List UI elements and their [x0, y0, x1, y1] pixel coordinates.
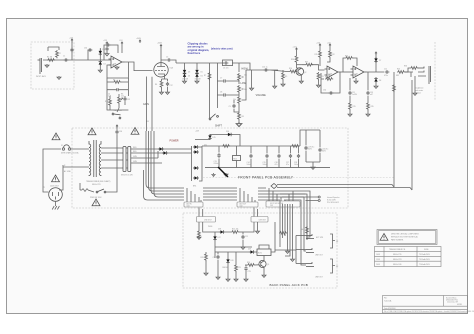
feedback loop U2A — [321, 72, 340, 95]
warning triangle ac — [52, 133, 60, 140]
svg-text:TRANSFORMER (SEE CHART): TRANSFORMER (SEE CHART) — [86, 180, 111, 183]
resistor R19 rail — [222, 145, 230, 148]
wire bus riser left4 — [154, 131, 184, 197]
svg-text:F1: F1 — [61, 145, 63, 147]
dashed chassis bottom right — [203, 177, 394, 179]
svg-text:D19: D19 — [248, 249, 251, 251]
bracket ext spk — [330, 234, 339, 248]
ground rail arrow — [224, 173, 228, 176]
resistor R20 rail — [291, 145, 299, 148]
ground AC — [52, 201, 59, 209]
ground jack sleeve — [45, 64, 49, 67]
wire B+ rail — [205, 145, 300, 147]
dashed enclosure front panel pcb — [72, 128, 348, 208]
capacitor C31 — [102, 47, 109, 56]
svg-text:R4: R4 — [155, 84, 157, 86]
svg-text:R14: R14 — [325, 76, 328, 78]
svg-text:File:: File: — [384, 298, 388, 300]
connector CN9 aux out — [251, 208, 268, 223]
wire headphone gnd — [414, 76, 416, 92]
jack line out 2 — [296, 262, 323, 279]
resistor R12 — [327, 47, 335, 62]
resistor R40 on riser — [279, 232, 287, 235]
title block — [383, 296, 474, 314]
capacitor C23 — [244, 265, 251, 281]
svg-text:TRANSFORMER P.N.: TRANSFORMER P.N. — [389, 248, 406, 251]
ground clip diodes 1 — [183, 80, 187, 83]
supply -15V mid — [119, 40, 123, 53]
svg-text:240V ONLY: 240V ONLY — [50, 186, 60, 188]
svg-text:FRONT PANEL PCB ASSEMBLY: FRONT PANEL PCB ASSEMBLY — [238, 175, 294, 179]
connector CN8 aux in — [197, 208, 216, 223]
svg-text:R35: R35 — [371, 106, 374, 108]
svg-text:10k: 10k — [301, 229, 304, 231]
svg-text:1N4148: 1N4148 — [222, 267, 228, 269]
svg-text:C36: C36 — [119, 131, 122, 133]
wire clip diode drop 1 — [184, 63, 186, 69]
wire aux rail — [195, 138, 210, 141]
wire bus riser left3 — [151, 131, 184, 194]
resistor R10 series — [287, 68, 297, 73]
label internal speaker — [327, 196, 340, 204]
svg-text:D7: D7 — [379, 60, 381, 62]
svg-text:BR1: BR1 — [193, 186, 196, 188]
capacitor C3 top — [104, 43, 118, 61]
svg-text:T200mA 250V: T200mA 250V — [419, 263, 431, 266]
switch SHIFT — [208, 113, 222, 127]
potentiometer LOW — [238, 85, 247, 96]
ground foot — [291, 258, 295, 261]
svg-text:7815: 7815 — [233, 158, 237, 160]
bracket line out — [330, 259, 339, 273]
resistor R18 on line — [393, 84, 396, 92]
svg-text:SHIFT: SHIFT — [215, 125, 222, 128]
ground cathode — [160, 91, 164, 94]
speaker connector diamond — [271, 184, 412, 191]
capacitor C18 — [294, 146, 300, 168]
diode D12 bridge — [193, 150, 199, 153]
wire headphone feed — [405, 72, 413, 77]
svg-text:CN1: CN1 — [270, 205, 273, 207]
ground cathode cap — [166, 91, 170, 94]
resistor R3 feedback — [107, 78, 128, 105]
capacitor C17 — [286, 146, 292, 168]
svg-text:+340V: +340V — [136, 38, 142, 40]
diode D6 — [195, 72, 202, 81]
diode D7 — [374, 54, 381, 72]
ground input — [57, 76, 61, 79]
ground under U2B — [354, 78, 358, 83]
potentiometer HIGH — [238, 73, 247, 84]
wire foot pins continue — [280, 201, 293, 214]
switch gain pull — [112, 108, 122, 119]
svg-text:C10 1u: C10 1u — [262, 67, 268, 69]
capacitor C32 — [123, 96, 130, 105]
capacitor C4 — [107, 88, 128, 97]
capacitor C15 — [263, 146, 269, 168]
svg-text:C23: C23 — [248, 271, 251, 273]
ground rail sym — [211, 173, 215, 176]
svg-text:45238: 45238 — [457, 304, 462, 306]
svg-text:R9: R9 — [285, 76, 287, 78]
op-amp U1A — [109, 56, 125, 68]
resistor R37 out — [302, 61, 325, 70]
wire AC neutral — [59, 165, 85, 190]
regulator VR1 — [233, 146, 241, 168]
wire bus riser left5 — [144, 170, 185, 200]
svg-text:fixed here: fixed here — [188, 51, 201, 55]
resistor R24 base — [245, 262, 259, 267]
svg-text:D6: D6 — [201, 76, 203, 78]
svg-text:D8: D8 — [379, 80, 381, 82]
ground aux out — [256, 230, 260, 233]
svg-text:1N4148: 1N4148 — [182, 79, 188, 81]
resistor R8 below volume — [238, 112, 244, 122]
svg-text:C9: C9 — [229, 106, 231, 108]
wire B+ branch caps — [300, 130, 320, 166]
ground opamp — [115, 66, 119, 69]
wire heater 2 — [151, 77, 153, 131]
input jack J1 — [36, 58, 47, 78]
svg-text:100u: 100u — [263, 164, 267, 166]
svg-text:C3: C3 — [105, 43, 107, 45]
svg-text:Q2: Q2 — [304, 72, 306, 74]
wire secondary taps — [101, 148, 123, 168]
svg-text:R21 10k: R21 10k — [232, 229, 238, 231]
svg-text:R22: R22 — [201, 257, 204, 259]
wire rectifier feed — [131, 149, 192, 163]
resistor R4 cathode — [155, 77, 173, 91]
capacitor C20 — [318, 148, 328, 153]
resistor R42 riser — [301, 226, 309, 234]
svg-text:+340V: +340V — [157, 43, 163, 45]
svg-text:SB00-0740: SB00-0740 — [393, 264, 402, 266]
resistor R17 headphone — [405, 67, 418, 72]
wire opamp2 out — [367, 71, 385, 73]
capacitor C11 — [348, 78, 357, 102]
svg-text:470u: 470u — [384, 75, 388, 77]
resistor R21 — [231, 229, 243, 234]
label clip pair 1 — [182, 79, 188, 81]
svg-text:CN9 5917: CN9 5917 — [259, 220, 267, 222]
relay K1 — [257, 222, 275, 256]
svg-text:R36: R36 — [291, 59, 294, 61]
wire stage link — [341, 71, 354, 73]
notes box critical component — [377, 230, 437, 245]
svg-text:Date:6/16/2000: Date:6/16/2000 — [384, 307, 396, 310]
svg-text:T315mA: T315mA — [72, 152, 79, 155]
svg-text:C8: C8 — [220, 92, 222, 94]
svg-text:Q1: Q1 — [267, 264, 269, 266]
svg-text:8R2: 8R2 — [396, 75, 399, 77]
resistor R16 — [397, 69, 405, 74]
wire aux out drop — [243, 222, 258, 232]
transformer T1 secondary — [86, 141, 111, 186]
resistor R7 left — [204, 72, 211, 80]
supply +15V — [69, 38, 74, 43]
svg-text:C32: C32 — [127, 99, 130, 101]
svg-text:C31: C31 — [102, 49, 105, 51]
capacitor C7 left — [217, 78, 239, 83]
svg-text:100n: 100n — [294, 164, 298, 166]
wire foot riser link — [285, 244, 293, 258]
diode D17 vertical — [208, 226, 221, 258]
svg-text:C37: C37 — [170, 85, 173, 87]
resistor R13 feedback — [343, 55, 357, 72]
resistor R11 — [315, 47, 322, 66]
svg-text:n47: n47 — [370, 94, 373, 96]
svg-text:R2: R2 — [59, 53, 61, 55]
svg-text:C5: C5 — [166, 57, 168, 59]
wire bus to line jacks 3 — [282, 197, 306, 251]
capacitor C9 — [229, 100, 240, 112]
svg-text:C1: C1 — [63, 56, 65, 58]
svg-text:GAIN: GAIN — [143, 103, 149, 106]
svg-text:SB00-0715: SB00-0715 — [393, 254, 402, 256]
supply -15V opamp2 — [327, 43, 331, 48]
svg-text:D3: D3 — [188, 72, 190, 74]
svg-text:PART NUMBER.: PART NUMBER. — [391, 239, 404, 242]
svg-text:SB00-0723: SB00-0723 — [393, 259, 402, 261]
svg-text:R15: R15 — [353, 106, 356, 108]
diode D18 horizontal — [210, 229, 231, 234]
capacitor C1 — [63, 56, 68, 62]
svg-text:1N4148: 1N4148 — [195, 79, 201, 81]
ground clip diodes 2 — [195, 80, 199, 83]
capacitor C5 — [166, 57, 171, 62]
svg-text:D18: D18 — [218, 229, 221, 231]
resistor R30 — [105, 96, 128, 110]
svg-text:R12: R12 — [332, 54, 335, 56]
svg-text:INPUT JACK: INPUT JACK — [36, 75, 47, 78]
diode D16 — [226, 131, 233, 136]
svg-text:T315mA 250V: T315mA 250V — [419, 258, 431, 261]
ground aux in — [197, 236, 201, 239]
wire clip diode drop 2 — [196, 63, 198, 69]
connector CN4 — [121, 147, 133, 177]
svg-text:R23: R23 — [238, 267, 241, 269]
resistor R36 collector — [291, 55, 298, 68]
svg-text:R37: R37 — [305, 61, 308, 63]
svg-text:R8: R8 — [242, 116, 244, 118]
resistor R15 — [348, 102, 356, 116]
wire node A riser — [71, 42, 73, 60]
svg-text:P.N. SP00-0012: P.N. SP00-0012 — [327, 202, 339, 204]
svg-text:SB00-0723: SB00-0723 — [92, 184, 101, 186]
ground clip — [98, 69, 102, 72]
svg-text:Tube 12A: Tube 12A — [384, 300, 392, 303]
connector CN1 FOOT SW — [266, 188, 300, 207]
wire mid rail back — [215, 247, 252, 252]
svg-text:D5: D5 — [201, 72, 203, 74]
capacitor C35 — [366, 72, 373, 102]
wire heater 1 — [146, 77, 148, 132]
diode D14 bridge — [193, 146, 205, 181]
pointer arrow front panel — [218, 167, 228, 177]
svg-text:LINE OUT: LINE OUT — [315, 277, 323, 279]
capacitor C10 — [262, 67, 268, 72]
diode D4 — [183, 72, 190, 81]
ground volume big — [236, 122, 241, 127]
jack line out 1 — [296, 248, 323, 257]
wire volume to power amp — [246, 70, 287, 72]
svg-text:R1 1M: R1 1M — [47, 57, 53, 59]
svg-text:D15: D15 — [213, 137, 216, 139]
svg-text:(electric-otter.com): (electric-otter.com) — [211, 48, 233, 51]
svg-text:POWER: POWER — [170, 140, 179, 143]
connector CN2 AUX OUT — [237, 188, 258, 208]
supply +340 arrow mid — [136, 38, 142, 43]
svg-text:R11: R11 — [315, 54, 318, 56]
wire bus mid — [203, 188, 237, 200]
svg-text:100u: 100u — [247, 164, 251, 166]
potentiometer GAIN — [114, 94, 124, 112]
resistor R35 — [366, 102, 374, 116]
svg-text:D2: D2 — [104, 64, 106, 66]
fuse F1 — [61, 145, 85, 155]
note clipping diodes (blue) — [188, 41, 210, 55]
svg-text:DENOTES CRITICAL COMPONENT.: DENOTES CRITICAL COMPONENT. — [391, 233, 420, 236]
wire bus right — [258, 188, 306, 200]
svg-text:1uF: 1uF — [108, 96, 111, 98]
diode D15 — [208, 134, 215, 140]
capacitor C30 top row — [84, 48, 92, 61]
capacitor C22 left — [213, 252, 221, 279]
wire speaker line 2 — [411, 80, 413, 190]
capacitor C21 — [241, 232, 248, 249]
ground headphone — [413, 92, 417, 95]
capacitor C8 left — [217, 92, 239, 97]
svg-text:R30: R30 — [105, 101, 108, 103]
svg-text:CN8 5917: CN8 5917 — [204, 220, 212, 222]
ground caps — [311, 166, 315, 169]
warning triangle switch — [92, 199, 100, 206]
svg-text:47u: 47u — [286, 164, 289, 166]
svg-text:D4: D4 — [188, 76, 190, 78]
dashed enclosure input section — [31, 42, 74, 89]
wire bus to line jacks 1 — [266, 191, 310, 237]
supply diode top — [375, 52, 377, 55]
svg-text:47u: 47u — [275, 164, 278, 166]
wire tone node — [210, 63, 251, 114]
potentiometer VOLUME — [233, 70, 246, 112]
wire plate to tone — [176, 62, 224, 64]
resistor R2 — [56, 50, 61, 58]
svg-text:AC LINE: AC LINE — [64, 170, 71, 173]
resistor R22 left — [201, 252, 209, 275]
wire aux rail2 — [210, 135, 240, 147]
supply plate arrow — [157, 43, 176, 63]
ground riser — [286, 242, 290, 253]
wire relay contacts to jacks — [275, 236, 296, 264]
diode D9 — [158, 147, 164, 150]
wire bus riser left2 — [149, 131, 185, 191]
svg-text:C7: C7 — [220, 78, 222, 80]
warning triangle secondary — [131, 128, 139, 135]
capacitor C16 — [275, 146, 281, 168]
wire bus to line jacks 2 — [280, 194, 307, 240]
svg-text:C12: C12 — [384, 69, 387, 71]
diode D2 — [99, 53, 106, 70]
wire aux in drop — [199, 222, 210, 232]
wire bus riser left — [146, 131, 184, 188]
label clip pair 2 — [195, 79, 201, 81]
svg-text:C6 1n5: C6 1n5 — [223, 67, 229, 69]
resistor R41 — [198, 227, 201, 238]
svg-text:C22: C22 — [213, 257, 216, 259]
svg-text:R13: R13 — [345, 55, 348, 57]
tube V1A — [154, 63, 174, 77]
wire grid loop — [48, 47, 59, 51]
svg-text:R16: R16 — [397, 69, 400, 71]
capacitor C13 — [214, 146, 221, 168]
connector CN3 AUX IN — [184, 188, 203, 208]
svg-text:R10: R10 — [289, 68, 292, 70]
svg-text:CN3: CN3 — [187, 206, 190, 208]
op-amp U2A — [325, 66, 341, 78]
supply +15V mid — [103, 40, 108, 47]
jack line out 0 — [296, 234, 324, 239]
resistor R23 — [234, 252, 241, 281]
diode D10 — [162, 151, 168, 154]
svg-text:2200u: 2200u — [214, 163, 219, 165]
transistor Q1 — [259, 256, 269, 278]
svg-text:50k: 50k — [244, 89, 247, 91]
svg-text:D16: D16 — [226, 131, 229, 133]
wire collector out — [297, 64, 303, 66]
capacitor C19 — [304, 146, 314, 151]
resistor R9 shunt — [281, 70, 287, 86]
wire ground rail — [205, 167, 330, 169]
dashed enclosure back panel pcb — [183, 213, 337, 288]
switch power SW1 — [80, 137, 117, 199]
transformer T1 primary — [85, 141, 91, 176]
svg-text:R3: R3 — [113, 80, 115, 82]
transformer T1 core — [94, 140, 96, 177]
svg-text:BACK PANEL JACK PCB: BACK PANEL JACK PCB — [270, 283, 309, 287]
capacitor C14 — [247, 146, 253, 168]
svg-text:22k: 22k — [121, 96, 124, 98]
warning triangle 240V — [50, 175, 60, 188]
diode D8 — [374, 77, 381, 88]
diode D5 — [195, 69, 198, 75]
svg-text:MOLEX 4C 4W: MOLEX 4C 4W — [121, 175, 133, 177]
svg-text:(SEE CHART): (SEE CHART) — [61, 152, 72, 155]
svg-text:C34: C34 — [323, 90, 326, 92]
svg-text:C30: C30 — [84, 48, 87, 50]
resistor R31 input bias — [317, 72, 324, 87]
wire AC line — [43, 149, 61, 192]
svg-text:50k: 50k — [244, 75, 247, 77]
table transformer chart — [375, 247, 442, 267]
connector internal speaker pins — [306, 196, 321, 202]
ground mid — [273, 70, 277, 88]
svg-text:50k: 50k — [233, 99, 236, 101]
capacitor C2 — [70, 48, 73, 53]
svg-text:C21: C21 — [245, 236, 248, 238]
wire speaker line 1 — [393, 72, 395, 187]
capacitor C6 tone in — [223, 60, 233, 69]
svg-text:RLY1: RLY1 — [258, 253, 262, 255]
diode D13 bridge — [193, 166, 199, 169]
svg-text:D17: D17 — [218, 237, 221, 239]
AC inlet P1 — [49, 188, 63, 202]
svg-text:R7: R7 — [204, 75, 206, 77]
supply +15V opamp2 — [316, 43, 321, 48]
svg-text:EXT SPK: EXT SPK — [316, 237, 324, 239]
diode D3 — [183, 69, 186, 75]
diode D20 — [222, 252, 234, 281]
